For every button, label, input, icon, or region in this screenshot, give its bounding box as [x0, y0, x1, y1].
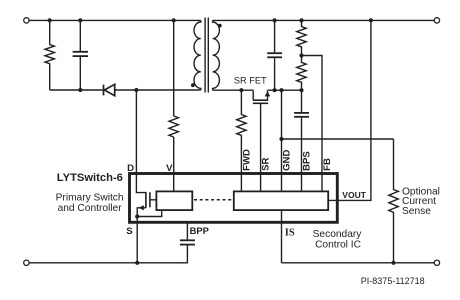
controller box primary	[156, 191, 192, 210]
wire top secondary rail	[213, 19, 435, 21]
output terminal -	[434, 260, 439, 265]
wire top primary rail	[29, 19, 201, 21]
node output cap bottom	[273, 88, 277, 92]
node clamp C bottom	[78, 88, 82, 92]
diode clamp D1	[104, 84, 115, 95]
svg-text:Secondary: Secondary	[313, 229, 363, 240]
wire secondary rail right	[268, 89, 304, 91]
svg-text:FB: FB	[322, 158, 333, 171]
svg-text:Control IC: Control IC	[315, 240, 361, 251]
input terminal -	[24, 260, 29, 265]
resistor clamp R	[45, 20, 54, 90]
node divider top	[299, 18, 303, 22]
wire drain rail	[115, 89, 201, 91]
wire GND line	[281, 90, 283, 192]
polarity dot primary	[191, 83, 195, 87]
output terminal +	[434, 18, 439, 23]
wire V line upper	[173, 20, 175, 116]
capacitor BPP	[180, 223, 195, 245]
capacitor output	[267, 20, 282, 90]
svg-text:GND: GND	[282, 150, 293, 171]
SR FET Q2	[253, 90, 270, 103]
node current sense bottom	[391, 261, 395, 265]
svg-text:SR: SR	[261, 158, 272, 171]
node divider bottom	[299, 88, 303, 92]
svg-text:LYTSwitch-6: LYTSwitch-6	[57, 172, 123, 184]
transformer core	[205, 18, 208, 93]
node GND rail	[279, 88, 283, 92]
svg-text:VOUT: VOUT	[342, 190, 366, 200]
wire D line	[135, 90, 137, 173]
wire FWD line + resistor FWD	[237, 90, 246, 192]
resistor V line	[169, 116, 178, 137]
transformer T1 secondary winding	[213, 20, 220, 90]
node V top	[172, 18, 176, 22]
wire S feedback	[137, 210, 162, 217]
svg-text:Sense: Sense	[402, 206, 431, 217]
svg-text:D: D	[127, 163, 134, 174]
wire SR gate line	[260, 103, 262, 192]
resistor divider lower	[297, 56, 306, 91]
wire VOUT	[328, 20, 371, 200]
capacitor clamp C	[73, 20, 88, 90]
wire IS line	[281, 210, 283, 263]
resistor divider upper	[297, 20, 306, 55]
svg-text:FWD: FWD	[241, 149, 252, 171]
svg-text:and Controller: and Controller	[58, 203, 123, 214]
node clamp C top	[78, 18, 82, 22]
node GND tap	[279, 137, 283, 141]
node S	[135, 214, 139, 218]
wire V line lower	[173, 137, 175, 192]
svg-text:BPS: BPS	[302, 151, 313, 171]
wire FB line	[302, 56, 323, 193]
node S bottom	[135, 261, 139, 265]
wire GND tap	[282, 138, 394, 140]
primary MOSFET Q1	[136, 173, 156, 263]
svg-text:S: S	[126, 226, 133, 237]
node FWD rail	[239, 88, 243, 92]
wire BPS line upper	[301, 90, 303, 112]
capacitor BPS	[294, 113, 309, 192]
transformer T1 primary winding	[194, 20, 201, 90]
node FB tap	[299, 53, 303, 57]
IC box LYTSwitch-6	[130, 174, 338, 223]
svg-text:SR FET: SR FET	[234, 76, 267, 86]
node VOUT rail	[369, 18, 373, 22]
svg-text:IS: IS	[285, 227, 295, 238]
svg-text:BPP: BPP	[190, 225, 209, 236]
node clamp R top	[48, 18, 52, 22]
wire secondary bottom rail	[282, 262, 435, 264]
resistor current sense	[389, 139, 398, 263]
input terminal +	[24, 18, 29, 23]
polarity dot secondary	[218, 24, 222, 28]
wire secondary rail left	[213, 89, 254, 91]
node drain	[134, 88, 138, 92]
dashed link	[194, 199, 233, 201]
wire primary bottom rail	[29, 245, 187, 262]
svg-text:Primary Switch: Primary Switch	[56, 193, 124, 204]
wire clamp bottom	[50, 89, 103, 91]
secondary controller box	[234, 191, 328, 210]
svg-text:V: V	[166, 163, 173, 174]
node output cap top	[273, 18, 277, 22]
svg-text:PI-8375-112718: PI-8375-112718	[361, 276, 425, 286]
